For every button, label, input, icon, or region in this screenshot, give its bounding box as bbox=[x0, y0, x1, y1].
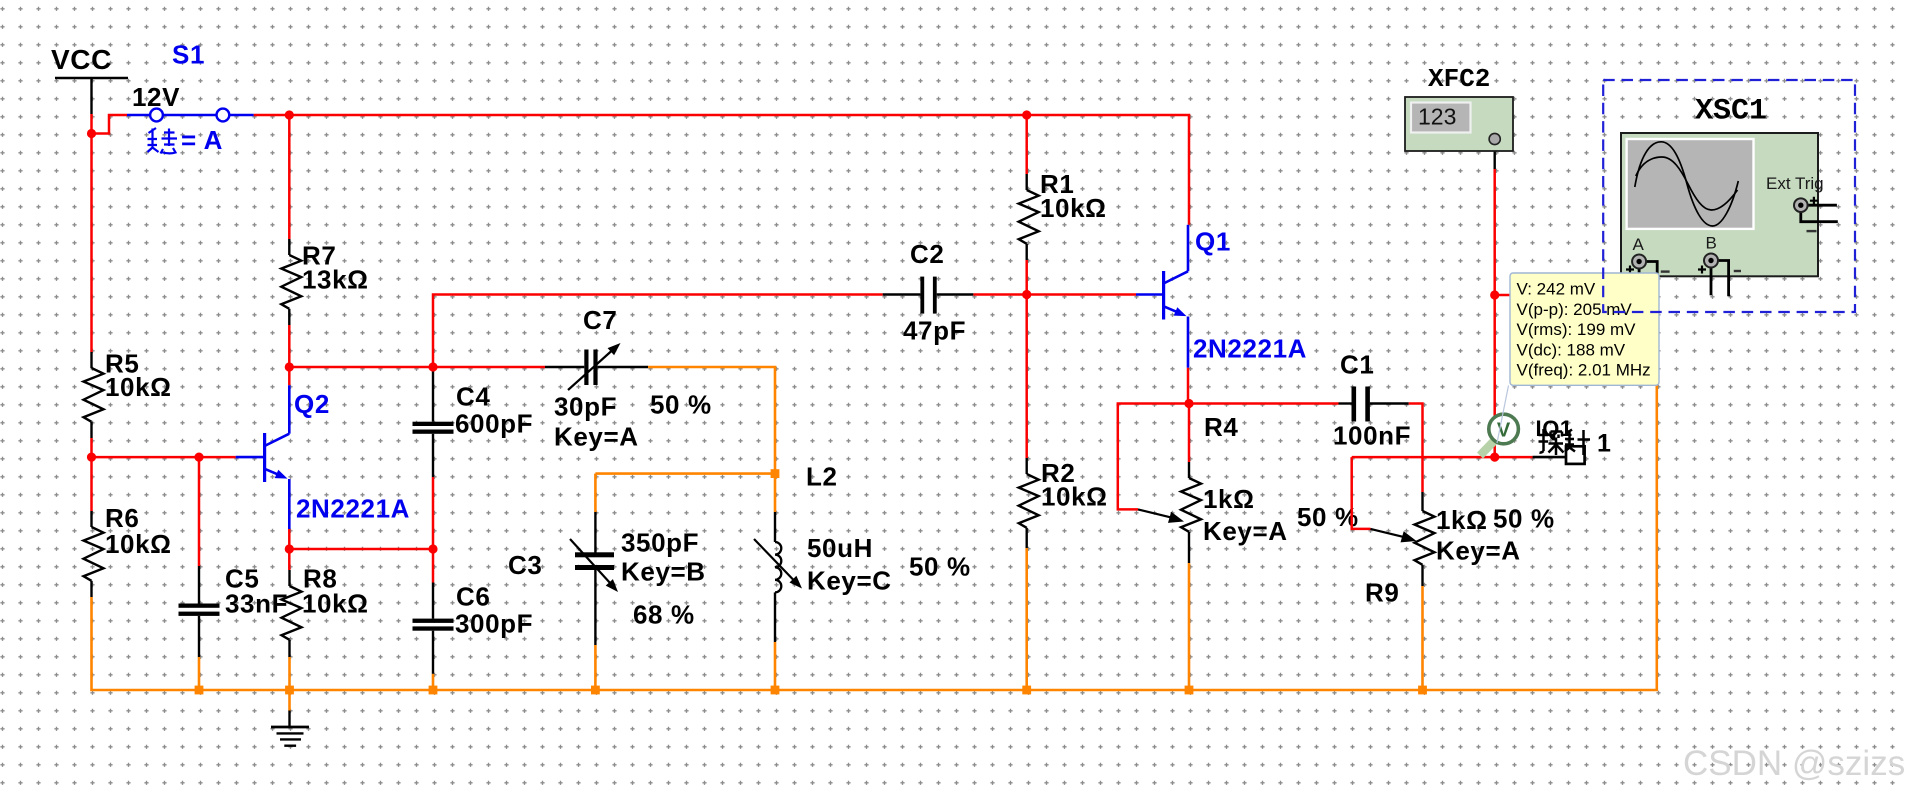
wire orange tank top to C3 bbox=[595, 472, 775, 475]
wire orange C6 lower bbox=[432, 674, 435, 690]
svg-text:350pF: 350pF bbox=[621, 528, 699, 558]
wire red bias node down to R2 bbox=[1025, 295, 1028, 459]
svg-text:10kΩ: 10kΩ bbox=[1040, 193, 1107, 223]
node ground bus junction bbox=[771, 686, 780, 695]
transistor Q2 bbox=[236, 456, 263, 459]
wire red emitter node to C4/C6 node bbox=[289, 548, 433, 551]
wire orange R9 lower bbox=[1421, 586, 1424, 690]
svg-text:XFC2: XFC2 bbox=[1428, 64, 1490, 94]
svg-text:R9: R9 bbox=[1365, 578, 1399, 608]
svg-text:= A: = A bbox=[181, 125, 223, 155]
wire red rail down to R7 bbox=[288, 115, 291, 239]
svg-text:Key=A: Key=A bbox=[554, 422, 639, 452]
svg-text:C1: C1 bbox=[1340, 350, 1374, 380]
probe tooltip callout bbox=[1497, 386, 1509, 444]
svg-text:2N2221A: 2N2221A bbox=[296, 494, 410, 524]
wire red Q2 emitter to node bbox=[288, 529, 291, 549]
node junction bbox=[87, 129, 96, 138]
potentiometer R4 wiper arrow bbox=[1138, 509, 1173, 517]
node junction bbox=[285, 110, 294, 119]
variable capacitor C3 bbox=[594, 512, 596, 553]
wire red base node row bbox=[92, 456, 236, 459]
svg-text:Q2: Q2 bbox=[294, 389, 330, 419]
svg-text:Key=A: Key=A bbox=[1436, 536, 1521, 566]
potentiometer R9 bbox=[1421, 492, 1423, 511]
node ground bus junction bbox=[591, 686, 600, 695]
resistor R5 bbox=[90, 352, 92, 368]
wire red C1 to R9 top bbox=[1409, 404, 1423, 493]
wire red rail to R1 bbox=[1025, 115, 1028, 174]
scope terminal Ext Trig bbox=[1808, 204, 1837, 207]
capacitor C5 bbox=[198, 566, 200, 604]
resistor R1 bbox=[1025, 174, 1027, 190]
svg-text:10kΩ: 10kΩ bbox=[302, 589, 369, 619]
svg-text:V(rms): 199 mV: V(rms): 199 mV bbox=[1517, 320, 1637, 339]
wire red R9 wiper loop bbox=[1352, 457, 1371, 529]
wire red stub to oscilloscope A+ (mostly hidden) bbox=[1495, 294, 1639, 297]
wire red R5 to base node bbox=[90, 438, 93, 457]
svg-text:1kΩ: 1kΩ bbox=[1436, 505, 1488, 535]
wire red C7 input bbox=[433, 366, 545, 369]
capacitor C4 bbox=[432, 367, 434, 422]
svg-text:10kΩ: 10kΩ bbox=[105, 372, 172, 402]
svg-text:V(dc): 188 mV: V(dc): 188 mV bbox=[1517, 340, 1626, 359]
probe label hanzi 探针1 bbox=[1539, 429, 1591, 455]
wire orange C7 output to tank bbox=[648, 367, 775, 474]
variable capacitor C7 bbox=[545, 366, 584, 368]
svg-text:30pF: 30pF bbox=[554, 392, 617, 422]
scope trace 1 bbox=[1635, 142, 1739, 226]
svg-text:Q1: Q1 bbox=[1195, 227, 1231, 257]
frequency counter XFC2 bbox=[1405, 64, 1513, 151]
wire red VCC down to R5 bbox=[90, 114, 93, 352]
wire red emitter node left loop to R4 wiper bbox=[1118, 404, 1189, 510]
wire red R7 to Q2 collector node bbox=[288, 325, 291, 385]
svg-text:47pF: 47pF bbox=[903, 316, 966, 346]
node ground bus junction bbox=[771, 469, 780, 478]
wire red R1 to bias node bbox=[1025, 260, 1028, 295]
wire orange L2 upper bbox=[774, 474, 777, 512]
svg-text:12V: 12V bbox=[132, 82, 180, 112]
resistor R2 bbox=[1025, 458, 1027, 474]
wire red base node down to R6 bbox=[90, 457, 93, 511]
wire red VCC to S1 step bbox=[92, 115, 128, 134]
node ground bus junction bbox=[1418, 686, 1427, 695]
node ground bus junction bbox=[1022, 686, 1031, 695]
inductor L2 bbox=[774, 512, 776, 542]
node ground bus junction bbox=[1185, 686, 1194, 695]
svg-text:10kΩ: 10kΩ bbox=[105, 529, 172, 559]
scope trace 2 bbox=[1636, 157, 1738, 210]
svg-text:V: 242 mV: V: 242 mV bbox=[1517, 280, 1596, 299]
node junction bbox=[87, 453, 96, 462]
svg-text:600pF: 600pF bbox=[455, 409, 533, 439]
resistor R6 bbox=[90, 511, 92, 527]
wire red emitter node down to R4 bbox=[1188, 404, 1191, 463]
node junction bbox=[285, 362, 294, 371]
capacitor C6 bbox=[432, 583, 434, 619]
wire orange L2 lower bbox=[774, 642, 777, 690]
wire orange R2 lower bbox=[1025, 548, 1028, 690]
oscilloscope XSC1 body bbox=[1621, 133, 1838, 296]
wire red node to C6 bbox=[432, 549, 435, 583]
svg-text:68 %: 68 % bbox=[633, 600, 695, 630]
wire red C2 feedback: C4 node up and right to C2 bbox=[433, 295, 883, 368]
node junction bbox=[1022, 110, 1031, 119]
probe 探针1 (IQ1) bbox=[1477, 414, 1573, 458]
node junction bbox=[194, 453, 203, 462]
svg-text:C7: C7 bbox=[583, 305, 617, 335]
wire red Q1 emitter to node bbox=[1187, 368, 1190, 404]
capacitor C1 bbox=[1339, 402, 1353, 404]
svg-text:Key=B: Key=B bbox=[621, 557, 706, 587]
svg-text:S1: S1 bbox=[172, 40, 205, 70]
wire red C4 to node bbox=[432, 477, 435, 549]
wire red Q2 collector node to C4 node bbox=[289, 366, 433, 369]
wire orange C3 lower bbox=[594, 645, 597, 690]
oscilloscope XSC1 selection box bbox=[1603, 80, 1855, 312]
wire red C5 branch bbox=[198, 457, 201, 566]
wire black XFC2 terminal stub bbox=[1493, 144, 1495, 169]
potentiometer R9 wiper arrow bbox=[1371, 529, 1406, 537]
switch S1 bbox=[127, 114, 150, 117]
node ground bus junction bbox=[429, 686, 438, 695]
node junction bbox=[1490, 453, 1499, 462]
svg-text:50uH: 50uH bbox=[807, 533, 873, 563]
capacitor C2 bbox=[883, 293, 921, 295]
wire red probe row bbox=[1352, 456, 1533, 459]
wire orange R8 lower / ground branch bbox=[288, 657, 291, 711]
wire red C2 to bias node bbox=[973, 293, 1026, 296]
probe label anchor wire and box bbox=[1533, 456, 1566, 459]
svg-text:V(freq): 2.01 MHz: V(freq): 2.01 MHz bbox=[1517, 361, 1651, 380]
potentiometer R4 bbox=[1188, 462, 1190, 478]
VCC power symbol bbox=[55, 77, 128, 80]
node junction bbox=[285, 544, 294, 553]
node ground bus junction bbox=[195, 686, 204, 695]
svg-text:C2: C2 bbox=[910, 239, 944, 269]
svg-text:CSDN @szizs: CSDN @szizs bbox=[1683, 744, 1905, 783]
svg-text:VCC: VCC bbox=[51, 44, 112, 75]
ground bbox=[288, 711, 290, 728]
svg-text:50 %: 50 % bbox=[650, 390, 712, 420]
svg-text:2N2221A: 2N2221A bbox=[1193, 334, 1307, 364]
S1 key label 键 = A bbox=[148, 128, 178, 154]
node junction bbox=[1022, 290, 1031, 299]
svg-text:50 %: 50 % bbox=[1297, 502, 1359, 532]
svg-text:10kΩ: 10kΩ bbox=[1041, 482, 1108, 512]
node junction bbox=[428, 544, 437, 553]
wire red emitter node down to R8 bbox=[288, 549, 291, 570]
wire orange C5 lower bbox=[198, 657, 201, 690]
wire orange C3 upper bbox=[594, 474, 597, 512]
svg-text:1kΩ: 1kΩ bbox=[1203, 484, 1255, 514]
wire red XFC2 down to probe node bbox=[1493, 169, 1496, 457]
svg-text:13kΩ: 13kΩ bbox=[302, 265, 369, 295]
svg-text:Ext Trig: Ext Trig bbox=[1766, 174, 1824, 193]
svg-text:123: 123 bbox=[1418, 104, 1456, 130]
svg-text:100nF: 100nF bbox=[1333, 421, 1411, 451]
wire red emitter node to C1 bbox=[1189, 402, 1339, 405]
node ground bus junction bbox=[285, 686, 294, 695]
node junction bbox=[1490, 290, 1499, 299]
resistor R7 bbox=[288, 239, 290, 255]
node junction bbox=[428, 362, 437, 371]
svg-text:R4: R4 bbox=[1204, 412, 1238, 442]
svg-text:300pF: 300pF bbox=[455, 609, 533, 639]
node junction bbox=[1184, 399, 1193, 408]
wire red S1 to top rail, rail to Q1 collector bbox=[254, 115, 1189, 225]
resistor R8 bbox=[288, 570, 290, 586]
svg-text:V(p-p): 205 mV: V(p-p): 205 mV bbox=[1517, 300, 1633, 319]
svg-text:Key=C: Key=C bbox=[807, 566, 892, 596]
svg-text:1: 1 bbox=[1597, 430, 1612, 458]
wire red bias node to Q1 base bbox=[1027, 293, 1136, 296]
svg-text:Key=A: Key=A bbox=[1203, 516, 1288, 546]
transistor Q1 bbox=[1136, 293, 1162, 296]
ground bus wire (orange bottom rail) bbox=[92, 385, 1657, 690]
svg-text:L2: L2 bbox=[806, 462, 838, 492]
svg-text:B: B bbox=[1706, 234, 1717, 253]
svg-text:C4: C4 bbox=[456, 382, 490, 412]
svg-text:50 %: 50 % bbox=[1493, 504, 1555, 534]
svg-text:A: A bbox=[1633, 235, 1645, 254]
svg-text:C6: C6 bbox=[456, 582, 490, 612]
wire orange R4 lower bbox=[1188, 563, 1191, 690]
svg-text:33nF: 33nF bbox=[225, 589, 288, 619]
svg-text:50 %: 50 % bbox=[909, 552, 971, 582]
svg-text:XSC1: XSC1 bbox=[1695, 95, 1767, 129]
svg-text:C3: C3 bbox=[508, 550, 542, 580]
